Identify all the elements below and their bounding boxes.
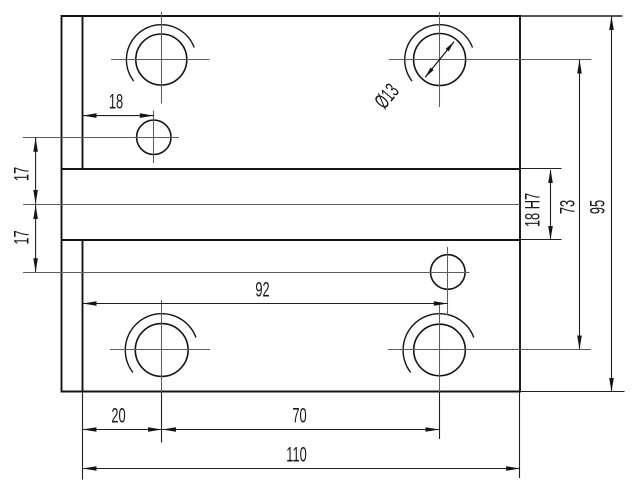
- inner step edge lower segment: [82, 240, 84, 393]
- dimension 95 top arrowhead: [609, 16, 614, 30]
- svg-text:95: 95: [585, 200, 609, 214]
- svg-text:73: 73: [555, 200, 579, 214]
- dimension 70 line: [162, 429, 440, 431]
- dimension 92 left arrowhead: [83, 301, 97, 306]
- svg-text:70: 70: [292, 403, 306, 427]
- dimension 17 upper line: [35, 137, 37, 203]
- inner step edge extension (20/110 dims): [82, 391, 84, 480]
- hole C3 vertical centreline: [161, 300, 163, 392]
- dowel hole S1 circle: [137, 120, 171, 154]
- dimension 18H7 bottom arrowhead: [548, 226, 553, 240]
- extension line 17 dims at hole S2 centreline: [23, 272, 64, 274]
- groove top edge extension (18H7 dim): [520, 168, 562, 170]
- svg-text:18: 18: [109, 89, 123, 113]
- dimension 18 left arrowhead: [83, 113, 97, 118]
- svg-text:17: 17: [9, 230, 33, 244]
- diameter 13 leader line: [425, 42, 454, 78]
- diameter 13 upper-right arrowhead: [446, 42, 454, 52]
- hole C1 horizontal centreline: [111, 59, 210, 61]
- dimension 110 right arrowhead: [506, 466, 520, 471]
- hole C2 horizontal centreline (73 dim extension): [389, 59, 591, 61]
- dimension 17 lower bottom arrowhead: [33, 258, 38, 272]
- dowel hole S1 vertical centreline: [153, 111, 155, 164]
- extension line 70 dim below plate at hole C4: [439, 392, 441, 439]
- hole C1 top-left bore circle: [136, 34, 187, 85]
- hole C3 bottom-left bore circle: [135, 324, 188, 377]
- dowel hole S2 circle: [431, 255, 466, 290]
- dimension 70 right arrowhead: [426, 427, 440, 432]
- plate right edge: [519, 15, 521, 393]
- plate top edge: [62, 15, 521, 17]
- inner step edge upper segment: [82, 16, 84, 169]
- dimension 20 left arrowhead: [83, 427, 97, 432]
- plate bottom edge extension (95 dim): [520, 391, 625, 393]
- svg-text:92: 92: [255, 277, 269, 301]
- extension line 17 dims at hole S1 centreline: [23, 137, 64, 139]
- dimension 18 line: [83, 115, 154, 117]
- dowel hole S1 horizontal centreline (17 dim extension): [23, 137, 179, 139]
- dimension 17 lower line: [35, 204, 37, 272]
- dimension 17 upper bottom arrowhead: [33, 190, 38, 204]
- groove bottom edge extension (18H7 dim): [520, 239, 562, 241]
- dimension 73 bottom arrowhead: [577, 336, 582, 350]
- hole C2 counterbore arc: [405, 25, 473, 81]
- groove top edge: [62, 168, 521, 170]
- dowel hole S2 horizontal centreline (17 dim extension): [23, 272, 470, 274]
- hole C4 horizontal centreline (73 dim extension): [388, 349, 591, 351]
- dimension 17 upper top arrowhead: [33, 138, 38, 152]
- svg-text:17: 17: [9, 167, 33, 181]
- dimension 73 top arrowhead: [577, 60, 582, 74]
- diameter 13 lower-left arrowhead: [425, 68, 433, 78]
- dimension 20 line: [83, 429, 163, 431]
- hole C3 counterbore arc: [125, 314, 196, 373]
- hole C4 bottom-right bore circle: [414, 324, 466, 376]
- hole C1 counterbore arc: [126, 25, 194, 81]
- hole C2 top-right bore circle: [414, 34, 466, 86]
- dimension 92 right arrowhead: [434, 301, 448, 306]
- extension line 20/70 dims below plate at hole C3: [161, 392, 163, 443]
- groove centreline: [23, 204, 520, 206]
- hole C4 counterbore arc: [403, 314, 474, 373]
- hole C3 horizontal centreline: [110, 349, 210, 351]
- dimension 17 lower top arrowhead: [33, 205, 38, 219]
- plate left edge: [61, 15, 63, 393]
- svg-text:18 H7: 18 H7: [520, 193, 544, 227]
- hole C4 vertical centreline: [439, 303, 441, 392]
- dimension 70 left arrowhead: [162, 427, 176, 432]
- svg-text:20: 20: [111, 403, 125, 427]
- dimension 73 line: [579, 60, 581, 349]
- svg-text:110: 110: [286, 442, 307, 466]
- plate right edge extension (110 dim): [519, 392, 521, 478]
- plate top edge extension (95 dim): [520, 15, 623, 17]
- plate bottom edge: [62, 391, 521, 393]
- hole C2 vertical centreline: [439, 12, 441, 107]
- dimension 95 line: [611, 17, 613, 392]
- dimension 18 right arrowhead: [140, 113, 154, 118]
- dimension 18H7 top arrowhead: [548, 169, 553, 183]
- dimension 18H7 line: [550, 170, 552, 239]
- dimension 95 bottom arrowhead: [609, 378, 614, 392]
- dimension 20 right arrowhead: [148, 427, 162, 432]
- dimension 110 left arrowhead: [83, 466, 97, 471]
- hole C1 vertical centreline: [161, 12, 163, 104]
- dowel hole S2 vertical centreline (92 dim extension): [447, 247, 449, 315]
- dimension 110 line: [83, 468, 521, 470]
- dimension 92 line: [83, 303, 448, 305]
- groove bottom edge: [62, 239, 521, 241]
